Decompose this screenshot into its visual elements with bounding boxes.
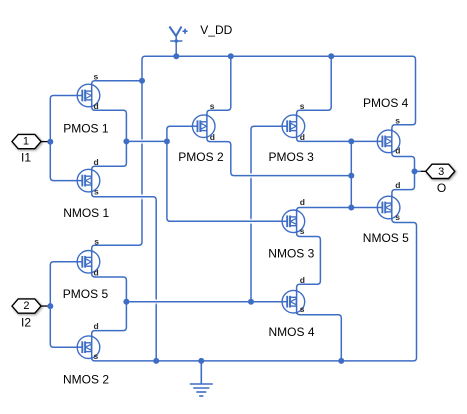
svg-text:NMOS 3: NMOS 3 xyxy=(268,247,314,261)
wire node1 to NMOS3 gate xyxy=(167,141,287,221)
svg-text:s: s xyxy=(300,226,305,236)
wire PMOS4 gate xyxy=(351,140,382,142)
pmos PMOS3 xyxy=(282,114,305,139)
node PMOS4 gate junction xyxy=(348,138,354,144)
svg-text:s: s xyxy=(94,71,99,81)
power symbol V+ xyxy=(169,27,187,43)
node NMOS5 gate junction xyxy=(348,205,354,211)
wire NMOS1 drain up to node1 xyxy=(92,141,127,172)
wire node1 to PMOS2 gate xyxy=(167,126,198,141)
wire output node down to NMOS5 drain xyxy=(392,171,415,202)
node PMOS1 source junction xyxy=(139,78,145,84)
nmos NMOS4 xyxy=(282,289,305,314)
node1 right junction xyxy=(164,138,170,144)
svg-text:O: O xyxy=(437,181,446,195)
wire node2 rail to PMOS3 gate xyxy=(251,126,287,302)
svg-text:PMOS 1: PMOS 1 xyxy=(63,121,109,135)
svg-text:s: s xyxy=(94,236,99,246)
svg-text:d: d xyxy=(395,180,400,190)
node PMOS3 source tap xyxy=(328,53,334,59)
svg-text:V_DD: V_DD xyxy=(200,23,232,37)
svg-text:NMOS 5: NMOS 5 xyxy=(363,231,409,245)
svg-text:I2: I2 xyxy=(21,315,31,329)
wire node1 horizontal xyxy=(126,140,166,142)
wire NMOS1 source down to ground bus xyxy=(92,190,157,361)
wire I1 gate rail xyxy=(50,96,82,181)
wire NMOS3 drain to NMOS5 gate node xyxy=(297,208,352,215)
wire NMOS5 gate xyxy=(351,207,382,209)
svg-text:NMOS 1: NMOS 1 xyxy=(63,206,109,220)
svg-text:s: s xyxy=(94,186,99,196)
svg-text:d: d xyxy=(210,132,215,142)
wire V+ stem xyxy=(175,36,177,56)
node I2 port junction xyxy=(47,303,53,309)
output port 3 xyxy=(421,164,455,178)
wire PMOS3 drain to PMOS4 gate node xyxy=(297,133,352,141)
wire I2 gate rail xyxy=(50,262,82,347)
node output junction xyxy=(412,168,418,174)
svg-text:d: d xyxy=(395,146,400,156)
node1 left junction xyxy=(123,138,129,144)
svg-text:s: s xyxy=(94,351,99,361)
nmos NMOS3 xyxy=(282,209,305,234)
svg-text:d: d xyxy=(300,197,305,207)
node PMOS2 source tap xyxy=(228,53,234,59)
wire NMOS3 source to NMOS4 drain xyxy=(297,229,321,291)
svg-text:d: d xyxy=(94,157,99,167)
wire mid rail vertical xyxy=(350,141,352,207)
svg-text:2: 2 xyxy=(23,300,29,312)
wire V_DD left rail down to PMOS5 source xyxy=(92,81,142,252)
node2 left junction xyxy=(123,299,129,305)
svg-text:s: s xyxy=(395,115,400,125)
pmos PMOS4 xyxy=(377,129,400,154)
node ground tap xyxy=(198,358,204,364)
pmos PMOS5 xyxy=(77,249,100,274)
svg-text:PMOS 3: PMOS 3 xyxy=(269,150,315,164)
wire NMOS4 source down to ground bus xyxy=(297,309,342,361)
node NMOS1 source ground tap xyxy=(153,358,159,364)
nmos NMOS2 xyxy=(77,335,100,360)
svg-text:1: 1 xyxy=(23,136,29,148)
svg-text:d: d xyxy=(94,101,99,111)
nmos NMOS5 xyxy=(377,195,400,220)
wire PMOS2 source up to bus xyxy=(207,56,231,119)
svg-text:d: d xyxy=(300,132,305,142)
wire PMOS1 drain down to node1 xyxy=(92,101,127,141)
svg-text:I1: I1 xyxy=(21,151,31,165)
node2 right junction xyxy=(248,299,254,305)
svg-text:s: s xyxy=(395,212,400,222)
wire ground bus from NMOS2 source to NMOS5 source xyxy=(92,214,417,361)
svg-text:PMOS 5: PMOS 5 xyxy=(63,287,109,301)
svg-text:NMOS 4: NMOS 4 xyxy=(269,325,315,339)
nmos NMOS1 xyxy=(77,168,100,193)
wire V_DD top bus with right corner down to PMOS4 source xyxy=(142,56,416,131)
ground xyxy=(190,361,213,396)
svg-text:d: d xyxy=(94,321,99,331)
wire PMOS4 drain to output node xyxy=(392,148,415,171)
svg-text:s: s xyxy=(300,304,305,314)
input port 1 xyxy=(12,134,48,148)
wire PMOS1 source xyxy=(92,81,142,90)
input port 2 xyxy=(12,299,48,313)
wire PMOS3 source up to bus xyxy=(297,56,332,119)
wire output node to port stub xyxy=(415,170,422,172)
svg-text:NMOS 2: NMOS 2 xyxy=(63,373,109,387)
node NMOS4 source ground tap xyxy=(338,358,344,364)
svg-text:d: d xyxy=(94,268,99,278)
node V+ tap xyxy=(173,53,179,59)
node I1 port junction xyxy=(47,139,53,145)
svg-text:PMOS 2: PMOS 2 xyxy=(178,150,224,164)
wire PMOS2 drain to mid rail xyxy=(207,133,351,176)
node PMOS2 drain junction xyxy=(348,173,354,179)
svg-text:3: 3 xyxy=(438,166,444,178)
svg-text:s: s xyxy=(210,101,215,111)
svg-text:d: d xyxy=(300,275,305,285)
svg-text:s: s xyxy=(300,101,305,111)
wire PMOS5 drain down to node2 and NMOS2 drain xyxy=(92,268,127,342)
pmos PMOS2 xyxy=(192,114,215,139)
wire node2 horizontal to NMOS4 gate xyxy=(126,301,287,303)
pmos PMOS1 xyxy=(77,83,100,108)
pin labels s/d xyxy=(94,71,401,361)
svg-text:PMOS 4: PMOS 4 xyxy=(363,96,409,110)
